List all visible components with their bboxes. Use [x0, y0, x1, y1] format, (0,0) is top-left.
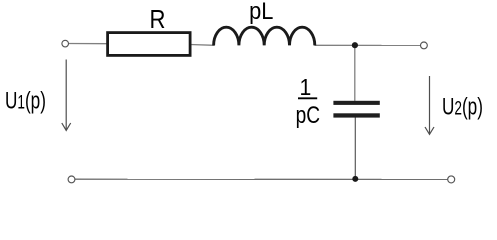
wire: input terminal to resistor [69, 43, 108, 45]
U1 voltage arrow [62, 60, 71, 131]
output terminal top-right [421, 42, 428, 49]
input terminal bottom-left [68, 176, 75, 183]
output terminal bottom-right [448, 176, 455, 183]
wire: inductor to node A and output terminal [315, 44, 421, 46]
node A junction dot [352, 42, 358, 48]
capacitor C top plate [333, 101, 379, 105]
label R [150, 5, 166, 34]
label 1/pC numerator 1 [300, 74, 312, 100]
input terminal top-left [62, 40, 69, 47]
wire: bottom rail [75, 178, 448, 180]
svg-text:U2(p): U2(p) [442, 94, 483, 121]
label pL [249, 0, 273, 24]
svg-text:pL: pL [249, 0, 273, 24]
svg-text:1: 1 [300, 74, 312, 100]
inductor L [214, 27, 315, 45]
node B junction dot [352, 176, 358, 182]
label U1(p) [5, 88, 46, 115]
capacitor C bottom plate [333, 113, 379, 117]
wire: node A down to capacitor top plate [354, 45, 356, 101]
U2 voltage arrow [425, 76, 434, 134]
wire: resistor to inductor [190, 44, 215, 47]
svg-text:R: R [150, 5, 166, 34]
label 1/pC fraction bar [298, 97, 317, 99]
resistor R [108, 33, 191, 56]
wire: capacitor bottom plate down to node B [354, 117, 356, 178]
label U2(p) [442, 94, 483, 121]
svg-text:U1(p): U1(p) [5, 88, 46, 115]
label 1/pC denominator pC [296, 101, 321, 129]
svg-text:pC: pC [296, 101, 321, 129]
